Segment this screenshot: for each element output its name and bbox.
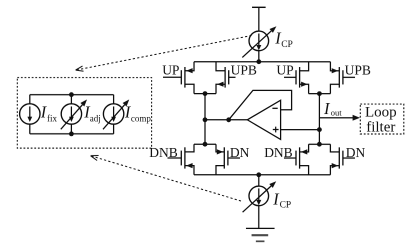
node dot top rail center (256, 59, 261, 64)
wire feedback minus input (229, 90, 292, 119)
svg-text:UP: UP (276, 62, 293, 77)
current source ICP bottom (243, 181, 277, 212)
top rail wire (194, 61, 330, 63)
svg-text:DN: DN (346, 145, 366, 160)
wire shared drain pair2 PMOS (309, 93, 331, 95)
wire shared drain pair2 NMOS (309, 143, 331, 145)
svg-text:CP: CP (280, 201, 292, 211)
current source Iadj (61, 99, 87, 129)
wire inner rect bottom (30, 133, 114, 135)
wire inner rect right stubs (113, 95, 115, 134)
transistor UP (M1) (163, 62, 194, 94)
node dot pair2 PMOS drain (317, 91, 322, 96)
node dot bottom rail center (256, 172, 261, 177)
transistor DNB (M7) (284, 144, 309, 175)
svg-text:DNB: DNB (149, 145, 178, 160)
current source ICP top (242, 26, 276, 57)
svg-text:UPB: UPB (231, 62, 257, 77)
wire shared drain pair1 NMOS (194, 143, 216, 145)
op-amp U1 (247, 100, 280, 139)
svg-text:CP: CP (281, 40, 293, 50)
svg-text:out: out (331, 108, 343, 118)
power supply bar (252, 6, 266, 8)
wire inner rect top (30, 94, 114, 96)
bottom rail wire (194, 174, 330, 176)
wire left internal node vertical (204, 94, 206, 145)
node dot plus input tap (317, 127, 322, 132)
current source Icomp (103, 99, 129, 129)
transistor DN (M8) (330, 144, 355, 175)
dashed annotation arrow top (76, 35, 252, 71)
dashed annotation arrow bottom (91, 155, 241, 201)
wire ICP bottom to ground (258, 206, 260, 229)
transistor UP (M3) (284, 62, 309, 94)
svg-text:comp: comp (131, 113, 151, 123)
svg-text:fix: fix (47, 113, 58, 123)
node dot left node at opamp wire (203, 117, 208, 122)
svg-text:DN: DN (230, 145, 250, 160)
current source Ifix (20, 104, 40, 124)
svg-text:UPB: UPB (345, 62, 371, 77)
transistor DN (M6) (216, 144, 240, 175)
wire supply to ICP top (258, 7, 260, 31)
wire ICP top to rail (258, 51, 260, 62)
wire Iout to loop filter (319, 117, 353, 119)
svg-text:DNB: DNB (264, 145, 293, 160)
wire shared drain pair1 PMOS (194, 93, 216, 95)
wire plus input to output node (281, 129, 320, 131)
svg-text:filter: filter (366, 119, 395, 135)
svg-text:adj: adj (90, 113, 101, 123)
dashed box current source detail (17, 78, 151, 149)
loop filter box (360, 104, 404, 134)
wire inner rect middle stubs (70, 95, 72, 134)
transistor UPB (M2) (216, 62, 236, 94)
wire opamp output to left node (205, 119, 247, 121)
svg-text:Loop: Loop (365, 105, 397, 121)
node dot middle top (69, 92, 74, 97)
node dot middle bottom (69, 131, 74, 136)
transistor UPB (M4) (330, 62, 355, 94)
node dot pair1 NMOS drain (203, 142, 208, 147)
wire right node vertical (318, 94, 320, 145)
svg-text:UP: UP (162, 62, 179, 77)
node dot feedback junction (226, 117, 231, 122)
wire inner rect left stubs (29, 95, 31, 134)
node dot pair2 NMOS drain (317, 142, 322, 147)
svg-text:I: I (323, 99, 331, 118)
ground (246, 228, 275, 241)
transistor DNB (M5) (167, 144, 194, 175)
node dot pair1 PMOS drain (203, 91, 208, 96)
wire rail to ICP bottom (258, 175, 260, 186)
